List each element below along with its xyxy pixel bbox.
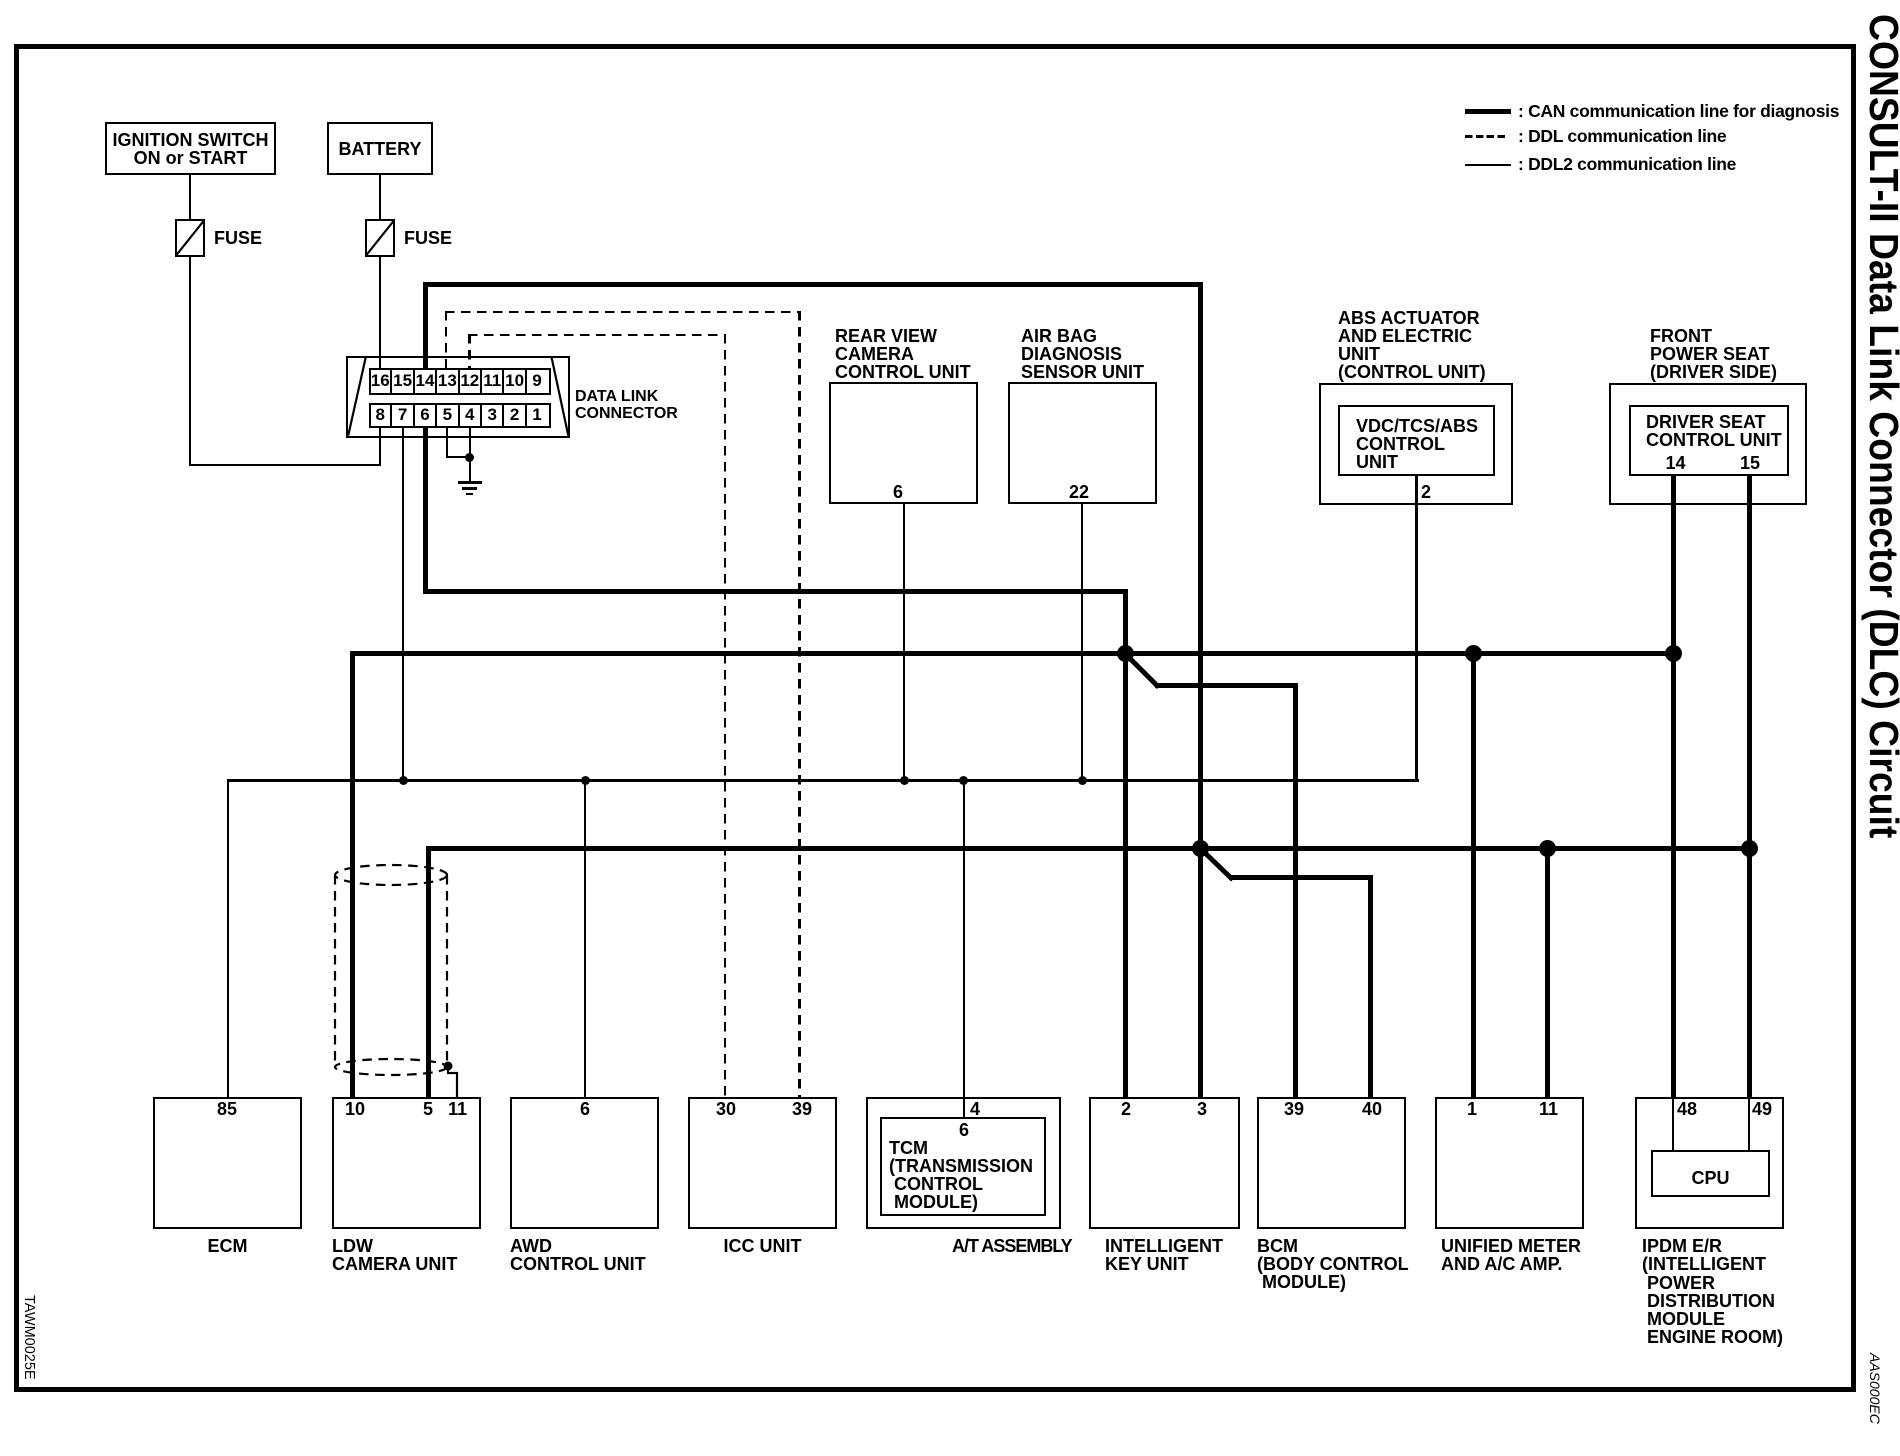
CAN jog1 diagonal — [1125, 654, 1157, 686]
DDL2 vertical REAR VIEW pin 6 — [903, 504, 905, 781]
connector top row cells 16-9 — [369, 368, 551, 395]
AIR BAG box — [1008, 382, 1157, 504]
junction dot AWD/bus — [581, 776, 590, 785]
CAN thick wire pin 14 up — [423, 282, 428, 369]
CAN jog2 horizontal y877.5 — [1229, 875, 1373, 880]
ground symbol — [458, 481, 482, 484]
DDL2 vertical to A/T pin 4 and TCM 6 — [963, 779, 965, 1117]
pin 15 — [391, 368, 413, 394]
CAN jog1 horizontal y685.5 — [1155, 683, 1298, 688]
pin 13 — [436, 368, 458, 394]
junction dot bus1/UM pin1 — [1465, 645, 1482, 662]
junction dot bus1 end x1673 — [1665, 645, 1682, 662]
wire battery fuse to pin 16 — [379, 257, 381, 368]
pin 10 ldw — [345, 1100, 363, 1118]
fuse F1 diagonal — [176, 221, 204, 256]
IPDM label — [1642, 1237, 1783, 1347]
wire pin 5 stub — [446, 427, 448, 458]
legend CAN sample line — [1465, 109, 1511, 114]
pin 5 ldw — [419, 1100, 437, 1118]
pin 11 unified meter — [1539, 1100, 1557, 1118]
junction dot A/T/bus — [959, 776, 968, 785]
CAN vertical to BCM pin 40 — [1368, 875, 1373, 1097]
data link connector outer box — [346, 356, 570, 438]
CAN thick wire pin 6 down — [423, 427, 428, 594]
IPDM E/R box — [1635, 1097, 1784, 1229]
wire ipdm 49 to cpu — [1748, 1097, 1750, 1150]
A/T ASSEMBLY box — [866, 1097, 1061, 1229]
AIR BAG DIAGNOSIS SENSOR UNIT label — [1021, 327, 1144, 381]
vertical title CONSULT-II Data Link Connector (DLC) Circuit — [1863, 14, 1900, 838]
CAN vertical DS pin15 to IPDM 49 — [1747, 476, 1752, 1097]
ICC UNIT box — [688, 1097, 837, 1229]
DDL dashed stub pin 12 — [468, 334, 470, 368]
junction dot pin7/bus — [399, 776, 408, 785]
pin 10 — [503, 368, 525, 394]
INTELLIGENT KEY label — [1105, 1237, 1223, 1273]
connector bottom row cells 8-1 — [369, 403, 551, 428]
CAN vertical UM pin 11 — [1545, 848, 1550, 1097]
DDL dashed vertical to ICC pin 39 — [798, 311, 800, 1097]
BCM label — [1257, 1237, 1409, 1291]
DDL dashed stub pin 13 — [445, 311, 447, 368]
FRONT POWER SEAT outer box — [1609, 383, 1807, 505]
legend DDL sample dashes — [1465, 135, 1505, 138]
DDL2 vertical AIR BAG pin 22 — [1081, 504, 1083, 781]
pin 30 icc — [716, 1100, 734, 1118]
UNIFIED METER box — [1435, 1097, 1584, 1229]
DDL dashed rail 1 (pin13 to ICC 39) — [445, 311, 801, 313]
CAN vertical to LDW pin 10 — [350, 651, 355, 1097]
pin 22 air bag — [1069, 483, 1087, 501]
legend DDL2 sample line — [1465, 164, 1511, 166]
ICC label — [688, 1237, 837, 1255]
CAN thick top horizontal — [423, 282, 1203, 287]
BCM box — [1257, 1097, 1406, 1229]
pin 16 — [369, 368, 391, 394]
INTELLIGENT KEY UNIT box — [1089, 1097, 1240, 1229]
CAN thick vertical x1125 down to INT KEY pin 2 — [1123, 589, 1128, 1097]
pin 48 ipdm — [1677, 1100, 1695, 1118]
pin 6 rear view — [889, 483, 907, 501]
pin 85 ecm — [217, 1100, 235, 1118]
legend CAN text — [1518, 102, 1839, 120]
CAN bus1 y653.5 — [350, 651, 1676, 656]
BATTERY box — [327, 122, 433, 175]
junction dot bus1/x1125 — [1117, 645, 1134, 662]
fuse F1 (ignition) — [175, 219, 205, 257]
DDL2 vertical to ECM pin 85 — [227, 779, 229, 1097]
fuse F2 diagonal — [366, 221, 394, 256]
pin 1 unified meter — [1463, 1100, 1481, 1118]
pin 15 driver seat — [1740, 454, 1758, 472]
figure code AAS000EC — [1868, 1353, 1882, 1424]
REAR VIEW CAMERA box — [829, 382, 978, 504]
CAN thick right vertical to INT KEY pin 3 — [1198, 282, 1203, 1098]
LDW label — [332, 1237, 457, 1273]
DDL2 vertical ABS pin 2 — [1415, 476, 1417, 782]
pin 11 ldw — [448, 1100, 466, 1118]
connector left slant — [348, 357, 366, 436]
shield drain junction dot — [444, 1062, 453, 1071]
connector top row separators — [390, 368, 392, 395]
pin 8 — [369, 402, 391, 428]
ECM box — [153, 1097, 302, 1229]
pin 3 intelligent key — [1193, 1100, 1211, 1118]
wire pin 8 stub — [379, 427, 381, 466]
UNIFIED METER label — [1441, 1237, 1581, 1273]
AWD label — [510, 1237, 646, 1273]
data link connector label — [575, 388, 678, 422]
pin 7 — [391, 402, 413, 428]
wire pin 4 stub — [469, 427, 471, 458]
pin 4 a/t — [966, 1100, 984, 1118]
pin 12 — [459, 368, 481, 394]
pin 2 intelligent key — [1117, 1100, 1135, 1118]
shield cylinder bottom ellipse — [335, 1059, 447, 1075]
DDL dashed vertical to ICC pin 30 — [724, 334, 726, 1097]
junction dot bus2 end x1749 — [1741, 840, 1758, 857]
AWD CONTROL UNIT box — [510, 1097, 659, 1229]
pin 1 — [526, 402, 548, 428]
pin 6 — [414, 402, 436, 428]
LDW CAMERA UNIT box — [332, 1097, 481, 1229]
CAN vertical UM pin 1 — [1471, 654, 1476, 1098]
wire ipdm 48 to cpu — [1672, 1097, 1674, 1150]
pin 11 — [481, 368, 503, 394]
A/T ASSEMBLY label — [952, 1237, 1072, 1255]
wire ignition to fuse — [189, 175, 191, 219]
ABS ACTUATOR label — [1338, 309, 1486, 381]
CAN vertical to LDW pin 5 — [426, 846, 431, 1098]
CAN bus2 y848 — [426, 846, 1752, 851]
DRIVER SEAT CONTROL UNIT inner box — [1629, 405, 1789, 476]
DDL2 vertical to AWD pin 6 — [584, 779, 586, 1097]
junction dot bus2/UM pin11 — [1539, 840, 1556, 857]
REAR VIEW CAMERA CONTROL UNIT label — [835, 327, 971, 381]
legend DDL2 text — [1518, 155, 1736, 173]
pin 39 icc — [792, 1100, 810, 1118]
pin 9 — [526, 368, 548, 394]
pin 3 — [481, 402, 503, 428]
wire pin5 to pin4 horizontal — [446, 456, 470, 458]
pin 4 — [459, 402, 481, 428]
DDL2 thin bus y780.5 — [227, 779, 1419, 781]
CAN jog2 diagonal — [1200, 848, 1231, 878]
DDL dashed rail 2 (pin12 to ICC 30) — [468, 334, 726, 336]
shield cylinder top ellipse — [335, 865, 447, 885]
connector bottom row separators — [390, 403, 392, 428]
pin 14 — [414, 368, 436, 394]
ECM label — [153, 1237, 302, 1255]
wire battery to fuse — [379, 175, 381, 219]
junction dot REARVIEW/bus — [900, 776, 909, 785]
pin 6 tcm — [955, 1121, 973, 1139]
pin 2 — [503, 402, 525, 428]
junction dot ground — [465, 453, 474, 462]
legend DDL text — [1518, 127, 1726, 145]
FRONT POWER SEAT label — [1650, 327, 1777, 381]
CAN vertical DS pin14 to IPDM 48 — [1671, 476, 1676, 1097]
TCM label — [889, 1139, 1033, 1211]
pin 6 awd — [576, 1100, 594, 1118]
CAN thick horizontal from pin 6 east — [423, 589, 1128, 594]
CAN vertical to BCM pin 39 — [1293, 683, 1298, 1097]
IGNITION SWITCH box — [105, 122, 276, 175]
CPU box — [1651, 1150, 1770, 1197]
junction dot bus2/x1200 — [1192, 840, 1209, 857]
fuse F2 (battery) — [365, 219, 395, 257]
pin 39 bcm — [1284, 1100, 1302, 1118]
wire dot to ground — [469, 458, 471, 481]
shield drain wire to LDW pin 11 — [448, 1066, 457, 1097]
VDC/TCS/ABS inner box — [1338, 405, 1495, 476]
ABS outer box — [1319, 383, 1513, 505]
pin 40 bcm — [1362, 1100, 1380, 1118]
pin 2 abs — [1421, 483, 1431, 501]
wire pin 7 down to DDL2 bus — [402, 427, 404, 781]
shield cylinder right side — [446, 875, 448, 1067]
shield cylinder left side — [334, 875, 336, 1067]
wire ignition fuse down and right to pin 8 — [189, 257, 191, 466]
pin 49 ipdm — [1752, 1100, 1770, 1118]
junction dot AIRBAG/bus — [1078, 776, 1087, 785]
pin 5 — [436, 402, 458, 428]
pin 14 driver seat — [1666, 454, 1684, 472]
connector right slant — [552, 357, 569, 437]
TCM inner box — [880, 1117, 1046, 1216]
figure code TAWM0025E — [21, 1295, 36, 1380]
